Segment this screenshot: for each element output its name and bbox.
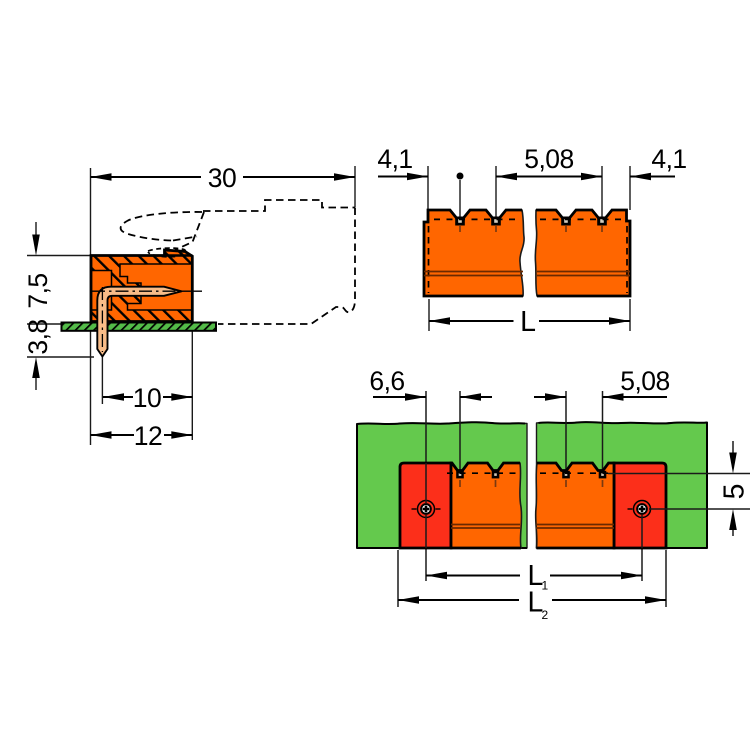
svg-text:7,5: 7,5 [23,273,53,308]
svg-text:30: 30 [208,163,236,193]
svg-text:10: 10 [133,383,161,413]
svg-text:L: L [520,306,536,338]
svg-text:2: 2 [542,608,549,622]
svg-text:4,1: 4,1 [377,144,412,174]
svg-text:5,08: 5,08 [620,366,670,396]
svg-text:5,08: 5,08 [524,144,574,174]
svg-text:12: 12 [134,421,162,451]
svg-text:4,1: 4,1 [651,144,686,174]
svg-text:3,8: 3,8 [23,319,53,354]
svg-text:6,6: 6,6 [369,366,404,396]
svg-text:5: 5 [718,484,750,500]
